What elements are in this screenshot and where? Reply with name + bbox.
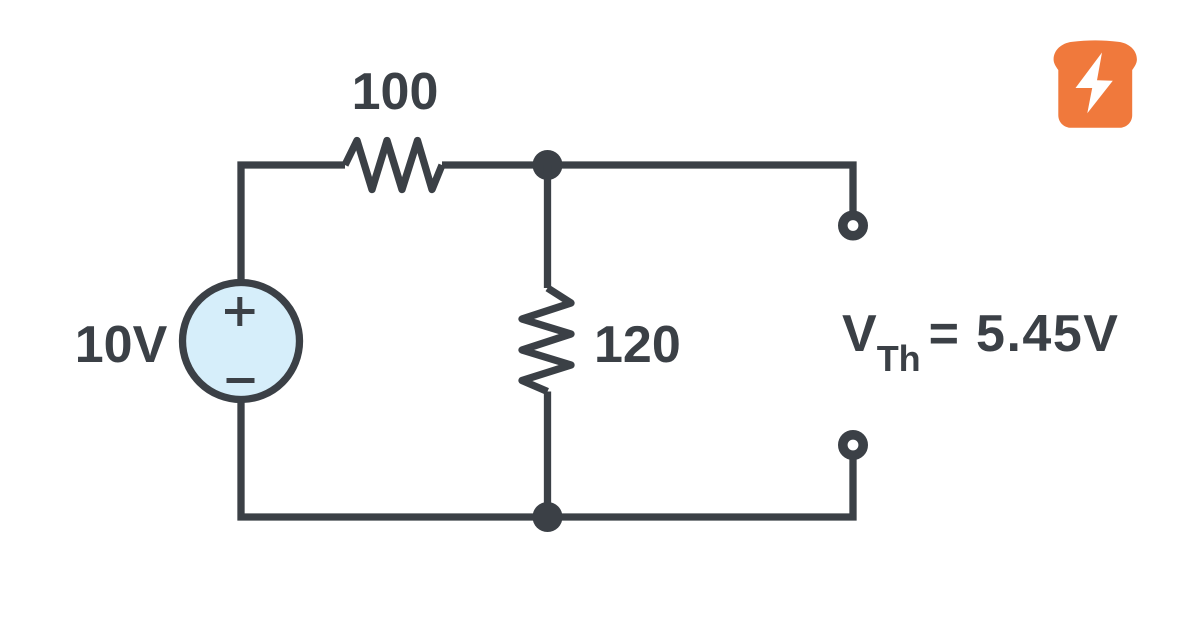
wire node A to top-right corner down to terminal a [548, 165, 854, 211]
node B (junction dot, bottom) [533, 502, 563, 532]
wire R1 to node A [442, 161, 548, 168]
resistor R1 (100 ohm, horizontal) [345, 141, 442, 190]
svg-text:100: 100 [352, 63, 439, 121]
resistor R2 (120 ohm, vertical) [522, 288, 571, 392]
wire node A down to R2 [544, 165, 551, 288]
wire source bottom to bottom-left corner to node B [241, 398, 548, 517]
svg-text:10V: 10V [75, 316, 168, 374]
voltage source V1 (10V) body [183, 283, 300, 400]
CircuitBread logo: bread slice [1054, 40, 1137, 127]
wire R2 to node B [544, 392, 551, 518]
CircuitBread logo: lightning bolt [1076, 53, 1113, 114]
terminal a (open terminal, top right) [843, 215, 863, 235]
svg-text:120: 120 [594, 316, 681, 374]
voltage source V1 plus sign [225, 297, 255, 326]
voltage source V1 minus sign [227, 378, 255, 383]
svg-text:VTh=5.45V: VTh=5.45V [842, 305, 1119, 379]
terminal b (open terminal, bottom right) [843, 435, 863, 455]
node A (junction dot, top) [533, 150, 563, 180]
wire left branch: source top to top-left corner to R1 [241, 165, 345, 284]
wire node B to bottom-right corner up to terminal b [548, 459, 854, 517]
